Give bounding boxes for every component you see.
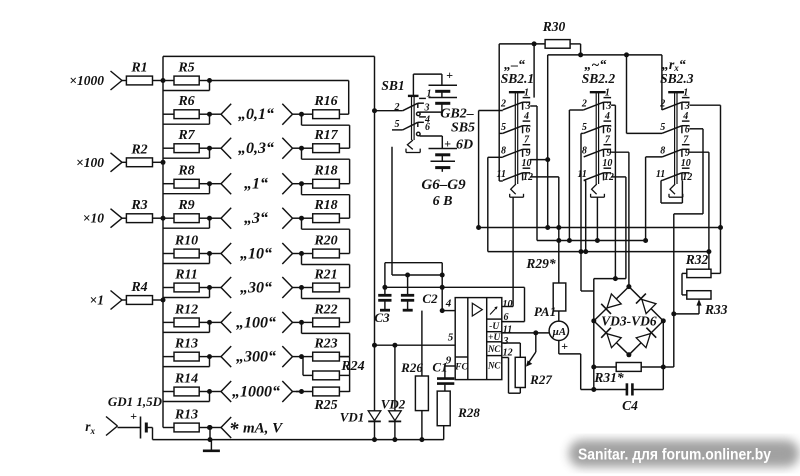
- svg-text:NC: NC: [487, 344, 501, 354]
- wire right staircase: [302, 254, 350, 288]
- value label „3“: [244, 210, 268, 227]
- svg-text:„100“: „100“: [236, 314, 276, 331]
- svg-text:C3: C3: [374, 310, 390, 325]
- switch contact left row „100“: [210, 312, 232, 333]
- svg-text:VD3-VD6: VD3-VD6: [601, 313, 657, 328]
- svg-text:„3“: „3“: [244, 210, 268, 227]
- svg-text:Sanitar. для forum.onliner.by: Sanitar. для forum.onliner.by: [578, 447, 771, 464]
- resistor R12: [163, 302, 210, 326]
- wire bus line 1: [479, 227, 721, 229]
- svg-text:R32: R32: [685, 252, 709, 267]
- svg-text:R13: R13: [174, 408, 198, 423]
- svg-text:R13: R13: [174, 337, 198, 352]
- wire SB1 lower contact drop: [392, 147, 442, 275]
- svg-text:GB2–: GB2–: [440, 107, 473, 122]
- switch contact left row „30“: [210, 277, 232, 298]
- switch SB2.2: [577, 58, 615, 197]
- svg-text:2: 2: [659, 99, 665, 110]
- svg-text:11: 11: [577, 169, 586, 180]
- diode bridge VD3-VD6: [591, 284, 666, 357]
- wire SB1 pin3 to battery: [420, 111, 442, 113]
- svg-text:10: 10: [681, 158, 691, 169]
- switch contact left row „0,3“: [210, 138, 232, 159]
- svg-text:R1: R1: [130, 61, 147, 76]
- wire ladder step: [163, 81, 210, 91]
- value label „1000“: [232, 384, 280, 401]
- svg-text:GD1 1,5D: GD1 1,5D: [108, 394, 163, 409]
- svg-text:×1000: ×1000: [69, 73, 104, 88]
- wire SB2.3 pin5 feed: [624, 52, 662, 133]
- wire SB2.1 spring to pin10: [512, 197, 514, 287]
- pin 10 label: [503, 299, 513, 310]
- svg-text:8: 8: [582, 146, 587, 157]
- wire SB2.2 pin5: [579, 133, 594, 291]
- resistor R5: [163, 61, 210, 85]
- resistor R3: [122, 198, 163, 222]
- junction C3 top: [382, 285, 387, 290]
- wire right staircase: [302, 322, 350, 356]
- wire R5 output line: [210, 81, 349, 115]
- resistor R4: [122, 280, 163, 304]
- value label „0,1“: [238, 106, 274, 123]
- switch contact right row „1“: [282, 173, 301, 194]
- resistor R10: [163, 234, 210, 258]
- wire top line from R1 node to VD1 branch: [163, 55, 375, 57]
- svg-text:+: +: [130, 409, 137, 423]
- svg-text:11: 11: [656, 169, 665, 180]
- wire pin11 to meter: [502, 330, 549, 335]
- junction right row R18: [299, 216, 304, 221]
- svg-text:R30: R30: [542, 19, 566, 34]
- wire right staircase: [302, 218, 350, 253]
- input terminal ×100: [76, 153, 122, 172]
- junction pin4 branch: [440, 273, 445, 278]
- value label „100“: [236, 314, 276, 331]
- svg-text:SB2.2: SB2.2: [582, 71, 616, 86]
- svg-text:9: 9: [446, 355, 452, 367]
- svg-text:×100: ×100: [76, 155, 104, 170]
- svg-text:VD1: VD1: [340, 410, 365, 425]
- switch contact left row *mA, V: [210, 417, 232, 438]
- wire ladder step: [163, 114, 210, 124]
- svg-text:R17: R17: [313, 128, 338, 143]
- switch SB2.3: [656, 58, 694, 197]
- svg-text:6 В: 6 В: [433, 194, 453, 209]
- svg-text:6: 6: [504, 312, 509, 323]
- resistor R25: [296, 387, 339, 413]
- junction R5 output: [207, 78, 212, 83]
- wire SB2.3 pin2 feed: [661, 55, 663, 110]
- wire SB2.3 pin9 to bus: [690, 152, 712, 269]
- svg-text:„10“: „10“: [240, 246, 272, 263]
- junction right row R21: [299, 285, 304, 290]
- resistor R31*: [593, 363, 663, 386]
- value label „1“: [244, 176, 268, 193]
- wire right staircase: [302, 148, 350, 184]
- switch SB2.1: [497, 58, 535, 197]
- resistor R17: [302, 128, 340, 152]
- svg-text:mA, V: mA, V: [243, 421, 284, 437]
- junction R9 output: [207, 216, 212, 221]
- wire right staircase: [302, 288, 350, 323]
- junction at R1 output: [161, 78, 166, 83]
- svg-text:12: 12: [503, 347, 513, 358]
- junction right row R16: [299, 112, 304, 117]
- switch contact left row „300“: [210, 346, 232, 367]
- resistor R14: [163, 372, 210, 396]
- wire bridge left vertical lower: [591, 365, 596, 390]
- svg-text:4: 4: [445, 298, 452, 310]
- switch contact right row „30“: [282, 277, 301, 298]
- wire bus line 2: [537, 240, 646, 242]
- resistor R8: [163, 164, 210, 188]
- svg-text:R31*: R31*: [593, 370, 624, 385]
- svg-text:„30“: „30“: [240, 280, 272, 297]
- svg-text:R23: R23: [313, 337, 337, 352]
- svg-text:SB5: SB5: [451, 121, 475, 136]
- wire SB2.2 pin2: [567, 110, 584, 243]
- junction R12 output: [207, 320, 212, 325]
- resistor R23: [302, 337, 340, 361]
- svg-text:R6: R6: [177, 94, 194, 109]
- junction R7 output: [207, 146, 212, 151]
- resistor R29*: [525, 256, 565, 321]
- wire ladder step: [163, 392, 210, 402]
- svg-text:11: 11: [497, 169, 506, 180]
- junction right row R18: [299, 181, 304, 186]
- svg-text:R18: R18: [313, 198, 337, 213]
- wire ladder step: [163, 254, 210, 264]
- svg-text:R33: R33: [704, 302, 728, 317]
- input terminal ×10: [83, 209, 122, 228]
- junction R8 output: [207, 181, 212, 186]
- svg-text:„0,3“: „0,3“: [238, 140, 274, 157]
- svg-text:R7: R7: [177, 128, 195, 143]
- resistor R20: [302, 234, 340, 258]
- resistor R30: [499, 19, 580, 48]
- resistor R13: [163, 408, 210, 432]
- wire R30 to switch feed line: [548, 44, 662, 58]
- svg-text:R24: R24: [340, 359, 364, 374]
- svg-text:6: 6: [425, 122, 430, 133]
- wire SB2.1 pin5 stub: [499, 132, 503, 134]
- switch contact right row „10“: [282, 243, 301, 264]
- wire ladder step: [163, 218, 210, 228]
- resistor R9: [163, 198, 210, 222]
- resistor R26: [400, 311, 428, 443]
- switch contact right row „0,1“: [282, 104, 301, 125]
- potentiometer R27: [502, 333, 553, 393]
- switch contact right row „300“: [282, 346, 301, 367]
- svg-text:„300“: „300“: [236, 349, 276, 366]
- wire R25 right connection: [339, 391, 349, 393]
- svg-text:R4: R4: [130, 280, 147, 295]
- ground: [203, 440, 220, 451]
- capacitor C3: [374, 263, 391, 325]
- junction right row R25: [299, 389, 304, 394]
- svg-text:×1: ×1: [90, 293, 104, 308]
- svg-text:R16: R16: [313, 94, 337, 109]
- svg-text:10: 10: [503, 299, 513, 310]
- wire SB2.2 pin9 to bridge: [611, 152, 629, 286]
- wire R23 right connection: [339, 357, 349, 392]
- svg-text:8: 8: [660, 146, 665, 157]
- svg-text:R20: R20: [313, 234, 337, 249]
- junction bottom R13 to rail: [208, 425, 213, 442]
- pin 3 label: [502, 336, 508, 347]
- wire SB2.1 pin9: [530, 159, 548, 161]
- svg-text:R14: R14: [174, 372, 198, 387]
- svg-text:SB2.1: SB2.1: [501, 71, 534, 86]
- wire SB2.2 pin11: [583, 181, 588, 255]
- junction right row R23: [299, 354, 304, 359]
- svg-text:R8: R8: [177, 164, 194, 179]
- svg-text:R10: R10: [174, 234, 198, 249]
- junction right row R22: [299, 320, 304, 325]
- svg-text:12: 12: [682, 172, 692, 183]
- junction R13 output: [207, 354, 212, 359]
- svg-text:1: 1: [524, 88, 529, 99]
- battery G6-G9: [420, 136, 474, 209]
- junction right row R20: [299, 251, 304, 256]
- svg-text:NC: NC: [487, 361, 501, 371]
- switch contact left row „0,1“: [210, 104, 232, 125]
- pin 4 label: [440, 298, 456, 314]
- svg-text:5: 5: [582, 122, 587, 133]
- svg-text:µA: µA: [551, 326, 566, 338]
- wire SB2.2 pin12 to bridge: [611, 177, 626, 279]
- wire SB2.2 left feed: [545, 55, 550, 230]
- svg-text:R28: R28: [457, 405, 480, 420]
- svg-text:*: *: [229, 419, 239, 440]
- junction R14 output: [207, 389, 212, 394]
- svg-text:10: 10: [522, 158, 532, 169]
- resistor R6: [163, 94, 210, 118]
- wire SB2.2 spring drop: [595, 197, 600, 243]
- svg-text:R11: R11: [174, 268, 198, 283]
- wire ladder step: [163, 148, 210, 158]
- svg-text:R12: R12: [174, 302, 198, 317]
- svg-text:R3: R3: [130, 198, 147, 213]
- resistor R21: [302, 268, 340, 292]
- junction R6 output: [207, 112, 212, 117]
- svg-text:4: 4: [523, 111, 529, 122]
- resistor R2: [122, 142, 163, 166]
- wire SB2.1 pin12 to R29: [530, 177, 561, 283]
- value label „10“: [240, 246, 272, 263]
- resistor R28: [437, 391, 480, 440]
- switch contact left row „10“: [210, 243, 232, 264]
- svg-text:R18: R18: [313, 164, 337, 179]
- input terminal ×1: [90, 291, 122, 310]
- pin 9 label: [445, 355, 455, 367]
- svg-text:R9: R9: [177, 198, 194, 213]
- svg-text:G6–G9: G6–G9: [421, 177, 466, 193]
- battery GD1 1,5D: [108, 394, 163, 440]
- svg-text:+: +: [446, 68, 453, 82]
- wire SB2.1 pin3: [530, 106, 537, 241]
- resistor R18: [302, 164, 340, 188]
- svg-text:+: +: [561, 339, 568, 353]
- junction at R3 output: [161, 216, 166, 221]
- resistor R11: [163, 268, 210, 292]
- junction R30 left branch: [532, 41, 537, 97]
- value label *mA, V: [229, 419, 284, 440]
- wire left ladder rail: [162, 56, 164, 427]
- svg-text:VD2: VD2: [381, 397, 406, 412]
- switch SB1: [372, 78, 432, 153]
- svg-text:10: 10: [602, 158, 612, 169]
- svg-text:6D: 6D: [456, 138, 473, 153]
- wire vertical VD1 branch line: [374, 56, 376, 439]
- wire SB2.1 pin11: [499, 180, 503, 182]
- wire SB2.1 pin2: [476, 111, 503, 231]
- junction C2 top: [405, 273, 410, 278]
- wire right staircase: [302, 114, 350, 148]
- svg-text:5: 5: [660, 122, 665, 133]
- svg-text:1: 1: [683, 88, 688, 99]
- svg-text:4: 4: [682, 111, 688, 122]
- svg-text:R27: R27: [529, 372, 552, 387]
- svg-text:4: 4: [604, 111, 610, 122]
- switch contact left row „3“: [210, 208, 232, 229]
- svg-text:×10: ×10: [83, 211, 104, 226]
- meter PA1: [534, 304, 581, 390]
- svg-text:5: 5: [395, 119, 400, 130]
- wire ladder step: [163, 322, 210, 332]
- resistor R22: [302, 302, 340, 326]
- switch contact right row „1000“: [282, 381, 301, 402]
- switch contact right row „3“: [282, 208, 301, 229]
- wire op-amp pin5 line: [372, 343, 455, 348]
- input terminal ×1000: [69, 71, 122, 90]
- battery GB2-SB5: [413, 68, 475, 136]
- wire SB2.2 pin3: [611, 105, 618, 281]
- svg-text:PA1: PA1: [534, 304, 556, 319]
- pin 5 label: [448, 332, 454, 344]
- wire SB2.3 pin3 to R32: [690, 105, 724, 273]
- junction R10 output: [207, 251, 212, 256]
- svg-text:5: 5: [448, 332, 454, 344]
- wire ladder step: [163, 288, 210, 298]
- capacitor C4: [581, 383, 664, 413]
- pin 6 label: [504, 312, 509, 323]
- svg-text:SB2.3: SB2.3: [660, 71, 694, 86]
- switch contact right row „0,3“: [282, 138, 301, 159]
- wire SB2.3 pin8: [643, 157, 662, 243]
- wire SB2.1 pin8: [488, 157, 503, 251]
- svg-text:R5: R5: [177, 61, 194, 76]
- junction R13 output: [207, 425, 212, 430]
- input terminal r_x: [85, 417, 117, 437]
- wire SB2.3 pin6 to R33 wiper: [664, 129, 703, 367]
- resistor R18: [302, 198, 340, 222]
- svg-text:11: 11: [503, 324, 512, 335]
- junction at R2 output: [161, 160, 166, 165]
- wire SB2.1 enclosure left: [498, 44, 500, 181]
- svg-text:2: 2: [581, 99, 587, 110]
- svg-text:„1000“: „1000“: [232, 384, 280, 401]
- wire bottom common rail: [153, 439, 444, 441]
- svg-text:R22: R22: [313, 302, 337, 317]
- wire bridge top left feed: [594, 279, 626, 367]
- svg-text:C2: C2: [422, 291, 438, 306]
- value label „0,3“: [238, 140, 274, 157]
- pin 12 label: [503, 347, 513, 358]
- svg-text:R25: R25: [313, 398, 337, 413]
- svg-text:R29*: R29*: [525, 256, 556, 271]
- diode VD1: [340, 410, 381, 443]
- svg-text:5: 5: [501, 122, 506, 133]
- resistor R1: [122, 61, 163, 85]
- junction right row R17: [299, 146, 304, 151]
- svg-text:R2: R2: [130, 142, 147, 157]
- svg-text:3: 3: [502, 336, 508, 347]
- resistor R32: [682, 252, 711, 278]
- junction R11 output: [207, 285, 212, 290]
- svg-text:R21: R21: [313, 268, 337, 283]
- resistor R7: [163, 128, 210, 152]
- capacitor C1: [432, 360, 454, 392]
- switch contact right row „100“: [282, 312, 301, 333]
- switch contact left row „1“: [210, 173, 232, 194]
- value label „300“: [236, 349, 276, 366]
- wire op-amp pin10 pin6 feed: [385, 285, 525, 322]
- pin 11 label: [503, 324, 512, 335]
- svg-text:-U: -U: [489, 322, 500, 332]
- resistor R13: [163, 337, 210, 361]
- wire ladder step: [163, 357, 210, 367]
- switch contact left row „1000“: [210, 381, 232, 402]
- svg-text:C4: C4: [622, 398, 638, 413]
- svg-text:SB1: SB1: [381, 78, 404, 93]
- op-amp U1: [454, 298, 502, 380]
- wire bus line 3: [488, 251, 709, 253]
- resistor R16: [302, 94, 340, 118]
- diode VD2: [381, 343, 406, 442]
- wire right staircase: [302, 184, 350, 219]
- value label „30“: [240, 280, 272, 297]
- svg-text:8: 8: [501, 146, 506, 157]
- wire SB2.3 pin11 loop: [661, 181, 682, 204]
- junction at R4 output: [161, 298, 166, 303]
- resistor R33: [674, 273, 728, 317]
- wire bus to op-amp pin4: [385, 263, 442, 311]
- svg-text:1: 1: [605, 88, 610, 99]
- resistor R24: [303, 357, 365, 380]
- svg-text:„0,1“: „0,1“: [238, 106, 274, 123]
- svg-text:R26: R26: [400, 360, 423, 375]
- svg-text:2: 2: [500, 99, 506, 110]
- svg-text:„1“: „1“: [244, 176, 268, 193]
- wire bridge right vertical: [661, 321, 666, 390]
- watermark banner: [570, 441, 798, 466]
- svg-text:+U: +U: [488, 333, 501, 343]
- capacitor C2: [401, 275, 438, 310]
- wire ladder step: [163, 184, 210, 194]
- svg-text:FC: FC: [454, 363, 468, 373]
